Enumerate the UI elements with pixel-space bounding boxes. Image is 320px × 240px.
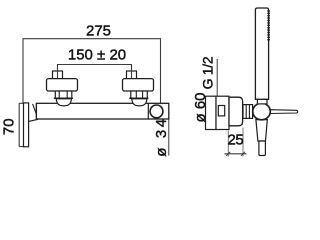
svg-text:275: 275 bbox=[86, 23, 111, 40]
svg-text:25: 25 bbox=[227, 131, 243, 148]
svg-text:G 1/2: G 1/2 bbox=[200, 56, 216, 89]
svg-text:ø 34: ø 34 bbox=[153, 116, 170, 156]
svg-text:150 ± 20: 150 ± 20 bbox=[68, 47, 126, 64]
svg-text:70: 70 bbox=[1, 118, 18, 135]
